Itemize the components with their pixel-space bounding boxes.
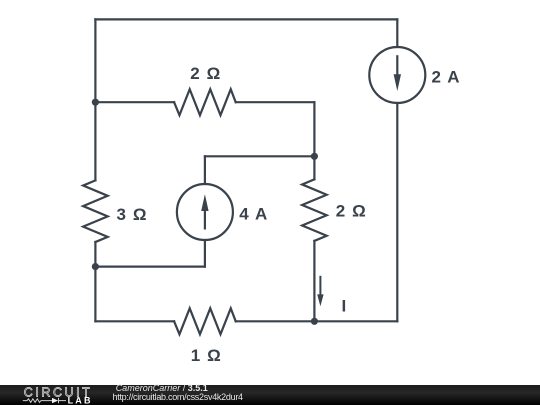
current source I1 4A arrow line: [204, 208, 206, 228]
wire bottom left segment: [95, 320, 174, 322]
wire 4A source bottom vertical: [204, 240, 206, 267]
resistor R4 1ohm zigzag: [174, 308, 236, 334]
wire right top vertical: [396, 19, 398, 47]
wire top horizontal: [95, 18, 397, 20]
wire left upper vertical: [94, 19, 96, 180]
wire vertical from top branch down to node: [313, 102, 315, 156]
svg-text:2 Ω: 2 Ω: [190, 64, 220, 83]
current source I2 2A circle: [369, 47, 425, 103]
wire 4A source top vertical: [204, 156, 206, 184]
wire branch top 2ohm right segment: [236, 101, 315, 103]
wire left lower vertical: [94, 242, 96, 321]
footer credit line: [116, 384, 208, 393]
wire right 2ohm top segment: [313, 156, 315, 179]
svg-text:3 Ω: 3 Ω: [117, 205, 147, 224]
CircuitLab logo: [0, 384, 110, 405]
current source I2 2A arrow line: [396, 56, 398, 76]
svg-text:I: I: [342, 297, 347, 316]
current arrow I arrowhead down: [317, 294, 323, 306]
resistor R3 3ohm zigzag: [83, 180, 108, 242]
logo resistor-diode wire: [23, 398, 66, 403]
wire right bottom vertical: [396, 103, 398, 321]
svg-text:1 Ω: 1 Ω: [191, 346, 221, 365]
node junction dot right upper: [311, 153, 318, 160]
wire node horizontal to 4A source: [205, 155, 315, 157]
resistor R1 2ohm zigzag: [174, 89, 236, 115]
node junction dot right lower: [311, 318, 318, 325]
current source I1 4A circle: [177, 184, 233, 240]
current source I2 2A arrowhead down: [394, 74, 401, 91]
svg-text:2 Ω: 2 Ω: [336, 202, 366, 221]
wire right 2ohm bottom segment: [313, 241, 315, 321]
wire branch top 2ohm left segment: [95, 101, 174, 103]
footer url line: [113, 393, 243, 402]
svg-text:4 A: 4 A: [239, 205, 267, 224]
node junction dot left lower: [92, 263, 99, 270]
logo diode triangle: [52, 398, 58, 403]
resistor R2 2ohm right zigzag: [302, 179, 327, 241]
wire horizontal 4A bottom to left wire: [95, 266, 204, 268]
current source I1 4A arrowhead up: [201, 194, 208, 211]
node junction dot left upper: [92, 99, 99, 106]
current arrow I line: [319, 277, 321, 296]
wire bottom right segment: [236, 320, 398, 322]
footer bar: [0, 385, 540, 405]
svg-text:2 A: 2 A: [432, 68, 460, 87]
svg-text:LAB: LAB: [68, 396, 93, 405]
